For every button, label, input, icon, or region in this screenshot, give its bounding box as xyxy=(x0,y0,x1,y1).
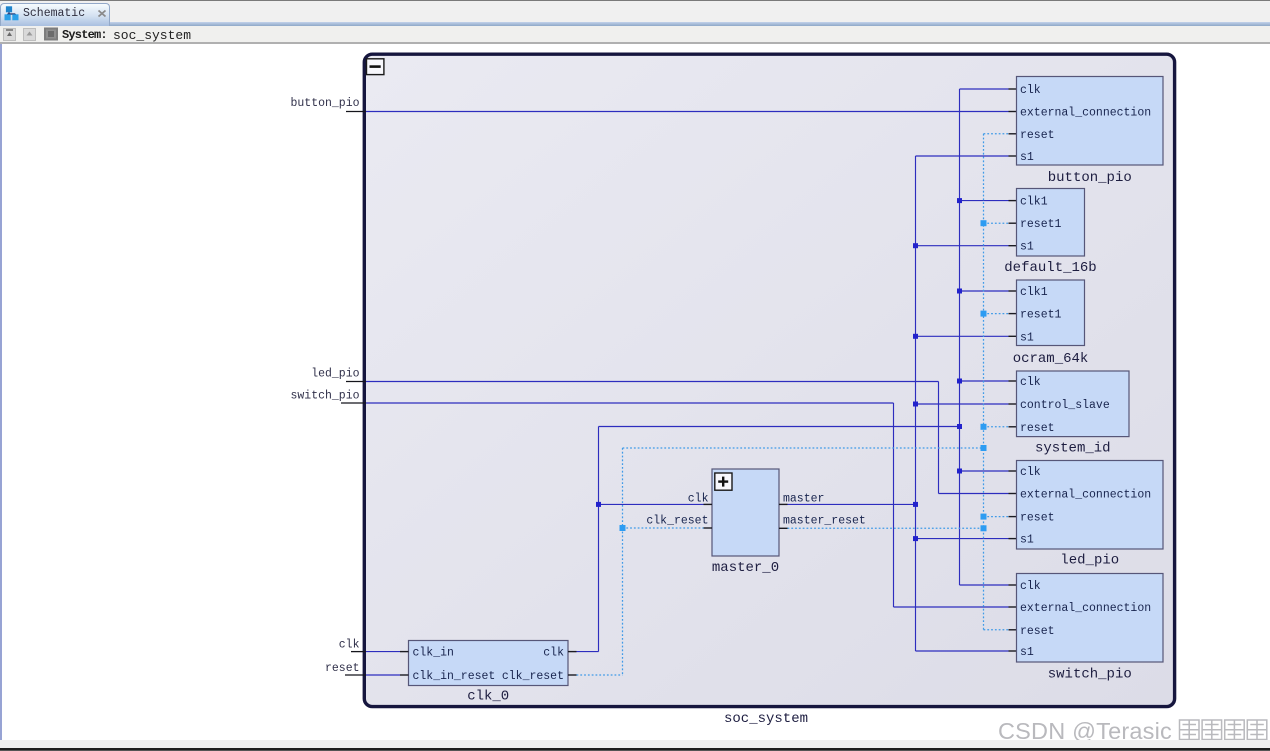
svg-text:clk: clk xyxy=(1020,580,1041,593)
svg-text:button_pio: button_pio xyxy=(1048,170,1132,186)
svg-text:s1: s1 xyxy=(1020,241,1034,254)
svg-text:system_id: system_id xyxy=(1035,441,1111,457)
svg-text:s1: s1 xyxy=(1020,151,1034,164)
svg-text:clk_reset: clk_reset xyxy=(646,515,708,528)
svg-text:ocram_64k: ocram_64k xyxy=(1013,351,1089,367)
svg-text:clk: clk xyxy=(339,639,360,652)
svg-text:clk_in: clk_in xyxy=(413,647,454,660)
svg-text:clk: clk xyxy=(543,647,564,660)
svg-text:s1: s1 xyxy=(1020,534,1034,547)
svg-text:external_connection: external_connection xyxy=(1020,602,1151,615)
svg-text:reset: reset xyxy=(1020,129,1055,142)
svg-text:soc_system: soc_system xyxy=(724,711,808,727)
svg-text:s1: s1 xyxy=(1020,646,1034,659)
svg-text:led_pio: led_pio xyxy=(1060,553,1119,569)
svg-text:reset: reset xyxy=(1020,625,1055,638)
svg-text:reset: reset xyxy=(325,662,360,675)
svg-text:reset: reset xyxy=(1020,512,1055,525)
svg-text:led_pio: led_pio xyxy=(311,368,359,381)
svg-text:clk_0: clk_0 xyxy=(467,689,509,705)
svg-text:master: master xyxy=(783,493,824,506)
svg-text:master_reset: master_reset xyxy=(783,515,866,528)
svg-text:clk_in_reset: clk_in_reset xyxy=(413,670,496,683)
svg-text:clk: clk xyxy=(1020,84,1041,97)
svg-text:clk1: clk1 xyxy=(1020,196,1048,209)
svg-text:clk_reset: clk_reset xyxy=(502,670,564,683)
svg-text:reset1: reset1 xyxy=(1020,309,1062,322)
svg-text:control_slave: control_slave xyxy=(1020,399,1110,412)
svg-text:clk: clk xyxy=(688,493,709,506)
svg-text:external_connection: external_connection xyxy=(1020,489,1151,502)
svg-text:clk: clk xyxy=(1020,376,1041,389)
svg-text:external_connection: external_connection xyxy=(1020,107,1151,120)
svg-text:switch_pio: switch_pio xyxy=(290,390,359,403)
svg-text:clk: clk xyxy=(1020,466,1041,479)
svg-text:reset: reset xyxy=(1020,422,1055,435)
svg-text:clk1: clk1 xyxy=(1020,286,1048,299)
svg-text:s1: s1 xyxy=(1020,331,1034,344)
svg-text:switch_pio: switch_pio xyxy=(1048,667,1132,683)
svg-text:button_pio: button_pio xyxy=(290,97,359,110)
svg-text:default_16b: default_16b xyxy=(1004,260,1096,276)
svg-text:reset1: reset1 xyxy=(1020,218,1062,231)
svg-text:master_0: master_0 xyxy=(712,560,779,576)
